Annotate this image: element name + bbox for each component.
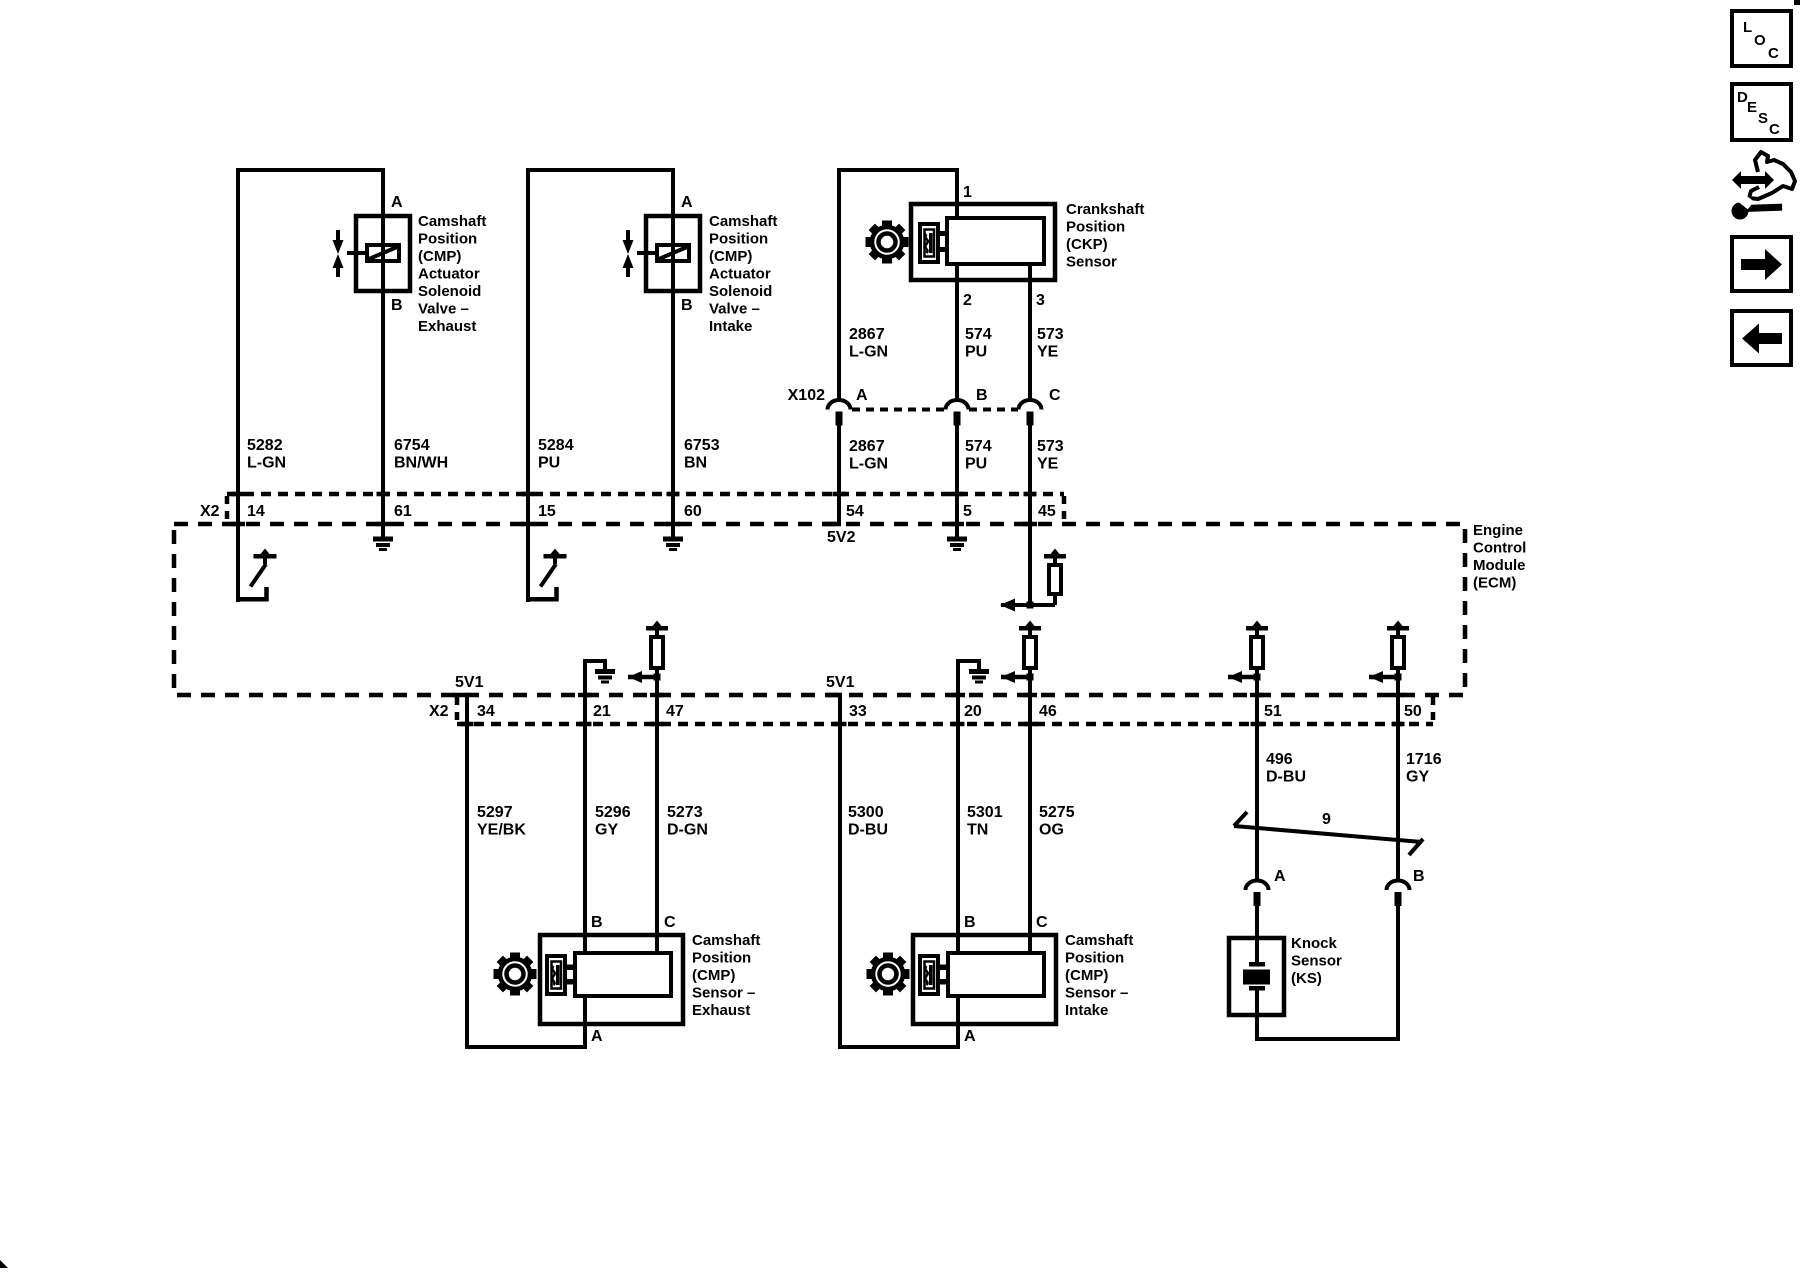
- X102 cavity B: [946, 400, 969, 426]
- svg-text:Position: Position: [1065, 950, 1124, 967]
- wire label 496 D-BU: [1266, 751, 1306, 786]
- wire pin 34 to CMP exhaust sensor A: [467, 695, 585, 1047]
- wire label 5296 GY: [595, 804, 631, 839]
- svg-text:PU: PU: [965, 344, 987, 361]
- X2 connector bottom dotted line: [457, 722, 1433, 727]
- svg-text:Sensor –: Sensor –: [1065, 985, 1128, 1002]
- svg-text:5296: 5296: [595, 804, 631, 821]
- wire CMP actuator intake loop: [528, 170, 673, 537]
- svg-text:496: 496: [1266, 751, 1293, 768]
- svg-text:C: C: [664, 914, 676, 931]
- svg-text:X2: X2: [429, 703, 449, 720]
- svg-text:Actuator: Actuator: [709, 266, 771, 283]
- svg-text:2867: 2867: [849, 326, 885, 343]
- svg-text:(CKP): (CKP): [1066, 236, 1108, 253]
- pull-up resistor and signal arrow pin 46: [1001, 621, 1041, 684]
- svg-text:5275: 5275: [1039, 804, 1075, 821]
- svg-text:45: 45: [1038, 503, 1056, 520]
- ground pin 5: [947, 537, 967, 552]
- pull-up resistor and signal arrow pin 45: [1000, 549, 1066, 612]
- svg-text:Position: Position: [1066, 219, 1125, 236]
- svg-text:OG: OG: [1039, 822, 1064, 839]
- DESC button: [1732, 84, 1791, 140]
- wire X102 C to pin 45: [1028, 424, 1032, 605]
- svg-text:Valve –: Valve –: [418, 301, 469, 318]
- svg-text:BN/WH: BN/WH: [394, 455, 448, 472]
- svg-text:5284: 5284: [538, 437, 574, 454]
- wire label 573 YE upper: [1037, 326, 1064, 361]
- wire label 6753 BN: [684, 437, 720, 472]
- wire X102 A to pin 54: [837, 424, 841, 524]
- svg-text:(ECM): (ECM): [1473, 575, 1516, 592]
- ECM dashed border: [174, 524, 1465, 695]
- svg-text:54: 54: [846, 503, 864, 520]
- X102 dashed connector line: [852, 408, 945, 412]
- CMP exhaust sensor inner box: [575, 953, 671, 996]
- svg-text:Camshaft: Camshaft: [1065, 932, 1133, 949]
- svg-text:573: 573: [1037, 326, 1064, 343]
- label CMP sensor exhaust: [692, 932, 760, 1019]
- knock sensor box: [1229, 938, 1284, 1015]
- svg-text:(CMP): (CMP): [709, 248, 752, 265]
- label CMP actuator exhaust: [418, 213, 486, 335]
- inline connector B knock: [1387, 881, 1410, 907]
- svg-text:Intake: Intake: [709, 318, 752, 335]
- forward arrow button: [1732, 237, 1791, 291]
- label CMP actuator intake: [709, 213, 777, 335]
- svg-text:60: 60: [684, 503, 702, 520]
- svg-text:BN: BN: [684, 455, 707, 472]
- svg-text:C: C: [1036, 914, 1048, 931]
- svg-text:1716: 1716: [1406, 751, 1442, 768]
- svg-text:B: B: [964, 914, 976, 931]
- svg-text:Position: Position: [418, 231, 477, 248]
- svg-text:(CMP): (CMP): [1065, 967, 1108, 984]
- border crossing ticks: [231, 492, 1405, 727]
- svg-text:Crankshaft: Crankshaft: [1066, 201, 1144, 218]
- svg-text:Valve –: Valve –: [709, 301, 760, 318]
- CMP exhaust pickup element: [547, 956, 565, 994]
- wire label 5301 TN: [967, 804, 1003, 839]
- CMP exhaust sensor outer box: [540, 935, 683, 1024]
- svg-text:5301: 5301: [967, 804, 1003, 821]
- Engine Control Module (ECM) label: [1473, 522, 1526, 592]
- svg-text:C: C: [1768, 45, 1779, 62]
- internal ground pin 20: [958, 659, 989, 695]
- svg-text:6753: 6753: [684, 437, 720, 454]
- wire label 6754 BN/WH: [394, 437, 448, 472]
- svg-text:B: B: [976, 387, 988, 404]
- CMP intake reluctor gear: [867, 953, 910, 996]
- connector-view icon: [1732, 152, 1796, 220]
- wire label 5275 OG: [1039, 804, 1075, 839]
- wire label 1716 GY: [1406, 751, 1442, 786]
- svg-text:Camshaft: Camshaft: [692, 932, 760, 949]
- wire CMP actuator exhaust loop: [238, 170, 383, 537]
- knock piezo element: [1243, 962, 1270, 991]
- svg-text:5V1: 5V1: [455, 674, 484, 691]
- svg-text:PU: PU: [965, 456, 987, 473]
- wire label 2867 L-GN upper: [849, 326, 888, 361]
- CMP exhaust reluctor gear: [494, 953, 537, 996]
- svg-text:L: L: [1743, 19, 1752, 36]
- wire label 574 PU upper: [965, 326, 992, 361]
- svg-text:B: B: [591, 914, 603, 931]
- svg-text:Position: Position: [692, 950, 751, 967]
- back arrow button: [1732, 311, 1791, 365]
- label knock sensor: [1291, 935, 1342, 987]
- corner mark top-right: [1794, 0, 1800, 5]
- wire pin 21 to CMP exhaust sensor B: [583, 661, 587, 953]
- LOC button: [1732, 11, 1791, 66]
- svg-text:L-GN: L-GN: [849, 456, 888, 473]
- svg-text:51: 51: [1264, 703, 1282, 720]
- svg-text:GY: GY: [1406, 769, 1429, 786]
- corner mark bottom-left: [0, 1260, 8, 1268]
- svg-text:34: 34: [477, 703, 495, 720]
- CMP intake sensor inner box: [948, 953, 1044, 996]
- svg-text:Sensor: Sensor: [1291, 953, 1342, 970]
- svg-text:Intake: Intake: [1065, 1002, 1108, 1019]
- wire pin 47 to CMP exhaust sensor C: [655, 677, 659, 953]
- svg-text:5273: 5273: [667, 804, 703, 821]
- svg-text:D-BU: D-BU: [1266, 769, 1306, 786]
- svg-text:Solenoid: Solenoid: [709, 283, 772, 300]
- X102 cavity C: [1019, 400, 1042, 426]
- wire X102 B to pin 5: [955, 424, 959, 537]
- svg-text:Actuator: Actuator: [418, 266, 480, 283]
- svg-text:5: 5: [963, 503, 972, 520]
- label CKP sensor: [1066, 201, 1144, 271]
- svg-text:573: 573: [1037, 438, 1064, 455]
- svg-text:S: S: [1758, 110, 1768, 127]
- svg-text:Control: Control: [1473, 540, 1526, 557]
- svg-text:PU: PU: [538, 455, 560, 472]
- svg-text:GY: GY: [595, 822, 618, 839]
- svg-text:X102: X102: [788, 387, 825, 404]
- wire label 2867 L-GN lower: [849, 438, 888, 473]
- X2 connector top dotted line: [227, 492, 1064, 497]
- wire label 574 PU lower: [965, 438, 992, 473]
- twisted pair symbol 9: [1234, 812, 1423, 855]
- internal ground pin 21: [585, 659, 615, 695]
- svg-text:(KS): (KS): [1291, 970, 1322, 987]
- svg-text:50: 50: [1404, 703, 1422, 720]
- svg-text:Sensor: Sensor: [1066, 254, 1117, 271]
- svg-text:47: 47: [666, 703, 684, 720]
- svg-text:YE/BK: YE/BK: [477, 822, 526, 839]
- svg-text:9: 9: [1322, 811, 1331, 828]
- svg-text:33: 33: [849, 703, 867, 720]
- CKP reluctor gear: [866, 221, 909, 264]
- CKP sensor inner box: [947, 218, 1044, 264]
- svg-text:A: A: [1274, 868, 1286, 885]
- svg-text:Exhaust: Exhaust: [692, 1002, 750, 1019]
- svg-text:2867: 2867: [849, 438, 885, 455]
- ground pin 61: [373, 537, 393, 552]
- wire label 5284 PU: [538, 437, 574, 472]
- wire knock sensor return loop: [1257, 906, 1398, 1039]
- wire label 573 YE lower: [1037, 438, 1064, 473]
- CMP intake pickup element: [920, 956, 938, 994]
- svg-text:A: A: [856, 387, 868, 404]
- wire pin 50 to knock sensor B: [1396, 677, 1400, 882]
- svg-text:Camshaft: Camshaft: [709, 213, 777, 230]
- wire pin 46 to CMP intake sensor C: [1028, 677, 1032, 953]
- svg-text:61: 61: [394, 503, 412, 520]
- wire CKP pin 3: [1028, 264, 1032, 400]
- svg-text:Position: Position: [709, 231, 768, 248]
- svg-text:1: 1: [963, 184, 972, 201]
- svg-text:Module: Module: [1473, 557, 1526, 574]
- svg-text:L-GN: L-GN: [247, 455, 286, 472]
- pull-up resistor and signal arrow pin 50: [1369, 621, 1409, 684]
- wire CKP pin 2: [955, 264, 959, 400]
- pull-up resistor and signal arrow pin 51: [1228, 621, 1268, 684]
- svg-text:D-GN: D-GN: [667, 822, 708, 839]
- svg-text:E: E: [1747, 99, 1757, 116]
- wire knock A lead: [1255, 906, 1259, 963]
- svg-text:Engine: Engine: [1473, 522, 1523, 539]
- svg-text:A: A: [964, 1028, 976, 1045]
- svg-text:TN: TN: [967, 822, 988, 839]
- svg-text:5V2: 5V2: [827, 529, 856, 546]
- svg-text:YE: YE: [1037, 456, 1059, 473]
- wire pin 33 to CMP intake sensor A: [840, 695, 958, 1047]
- svg-text:46: 46: [1039, 703, 1057, 720]
- svg-text:A: A: [681, 194, 693, 211]
- svg-text:(CMP): (CMP): [418, 248, 461, 265]
- svg-text:D-BU: D-BU: [848, 822, 888, 839]
- driver output switch pin 15: [526, 524, 530, 602]
- svg-text:Solenoid: Solenoid: [418, 283, 481, 300]
- svg-text:15: 15: [538, 503, 556, 520]
- svg-text:O: O: [1754, 32, 1766, 49]
- svg-text:Knock: Knock: [1291, 935, 1338, 952]
- CMP intake sensor outer box: [913, 935, 1056, 1024]
- inline connector A knock: [1246, 881, 1269, 907]
- wire label 5273 D-GN: [667, 804, 708, 839]
- svg-text:Camshaft: Camshaft: [418, 213, 486, 230]
- wire pin 51 to knock sensor A: [1255, 677, 1259, 882]
- svg-text:B: B: [391, 297, 403, 314]
- wire CKP pin 1 loop: [839, 170, 957, 400]
- svg-text:5V1: 5V1: [826, 674, 855, 691]
- CKP sensor outer box: [911, 204, 1055, 280]
- svg-text:B: B: [1413, 868, 1425, 885]
- svg-text:5297: 5297: [477, 804, 513, 821]
- wire pin 20 to CMP intake sensor B: [956, 661, 960, 953]
- CKP pickup element: [920, 224, 938, 262]
- CMP actuator solenoid valve exhaust: [333, 216, 411, 291]
- wire label 5282 L-GN: [247, 437, 286, 472]
- driver output switch pin 14: [236, 524, 240, 602]
- svg-text:A: A: [391, 194, 403, 211]
- svg-text:C: C: [1769, 121, 1780, 138]
- svg-text:YE: YE: [1037, 344, 1059, 361]
- wire label 5297 YE/BK: [477, 804, 526, 839]
- svg-text:L-GN: L-GN: [849, 344, 888, 361]
- CMP actuator solenoid valve intake: [623, 216, 701, 291]
- svg-text:Exhaust: Exhaust: [418, 318, 476, 335]
- svg-text:574: 574: [965, 326, 992, 343]
- X102 cavity A: [828, 400, 851, 426]
- svg-text:3: 3: [1036, 292, 1045, 309]
- svg-text:B: B: [681, 297, 693, 314]
- svg-text:C: C: [1049, 387, 1061, 404]
- svg-text:21: 21: [593, 703, 611, 720]
- ground pin 60: [663, 537, 683, 552]
- pull-up resistor and signal arrow pin 47: [628, 621, 668, 684]
- svg-text:20: 20: [964, 703, 982, 720]
- svg-text:Sensor –: Sensor –: [692, 985, 755, 1002]
- svg-text:A: A: [591, 1028, 603, 1045]
- svg-text:5300: 5300: [848, 804, 884, 821]
- svg-text:6754: 6754: [394, 437, 430, 454]
- svg-text:(CMP): (CMP): [692, 967, 735, 984]
- svg-text:2: 2: [963, 292, 972, 309]
- svg-text:574: 574: [965, 438, 992, 455]
- svg-text:5282: 5282: [247, 437, 283, 454]
- wire label 5300 D-BU: [848, 804, 888, 839]
- svg-text:X2: X2: [200, 503, 220, 520]
- svg-text:14: 14: [247, 503, 265, 520]
- label CMP sensor intake: [1065, 932, 1133, 1019]
